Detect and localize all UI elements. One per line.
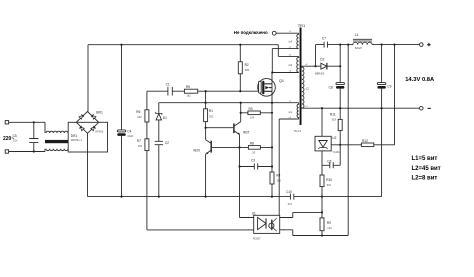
svg-text:DF06S: DF06S	[95, 129, 103, 133]
svg-text:C4: C4	[127, 130, 131, 134]
svg-text:C10: C10	[286, 190, 292, 194]
svg-text:Q1: Q1	[279, 79, 284, 83]
svg-text:DR1: DR1	[71, 134, 78, 138]
svg-text:R11: R11	[330, 113, 336, 117]
svg-text:U2: U2	[332, 136, 336, 140]
svg-text:L4: L4	[289, 40, 293, 44]
svg-text:TL431: TL431	[332, 150, 340, 154]
svg-text:R7: R7	[137, 139, 141, 143]
svg-text:R6: R6	[136, 110, 140, 114]
svg-text:C9: C9	[387, 84, 391, 88]
svg-text:L1: L1	[289, 110, 293, 114]
svg-text:50: 50	[252, 150, 255, 154]
svg-text:W2T: W2T	[243, 131, 250, 135]
svg-text:R10: R10	[326, 178, 332, 182]
svg-text:104: 104	[250, 116, 255, 120]
svg-text:15n: 15n	[13, 139, 18, 143]
svg-text:TR1: TR1	[298, 23, 306, 28]
svg-text:L3: L3	[289, 63, 293, 67]
svg-text:R4: R4	[276, 173, 280, 177]
svg-text:W2X: W2X	[193, 148, 201, 152]
svg-text:R1: R1	[209, 109, 213, 113]
svg-text:C3: C3	[251, 159, 255, 163]
svg-text:C8: C8	[329, 85, 333, 89]
svg-text:к2: к2	[289, 46, 292, 48]
svg-text:L1: L1	[355, 33, 359, 37]
svg-text:R8: R8	[250, 141, 254, 145]
svg-text:C6: C6	[327, 159, 331, 163]
svg-text:L2: L2	[306, 86, 310, 90]
svg-text:C7: C7	[322, 37, 326, 41]
svg-text:1k2: 1k2	[187, 93, 192, 97]
svg-text:472: 472	[288, 202, 293, 206]
svg-text:1k5: 1k5	[277, 178, 282, 182]
svg-text:L1=5 вит: L1=5 вит	[412, 156, 438, 162]
svg-text:C2: C2	[165, 141, 169, 145]
svg-text:124: 124	[327, 226, 332, 230]
svg-text:606: 606	[245, 68, 250, 72]
svg-text:R5: R5	[186, 85, 190, 89]
svg-text:к2: к2	[305, 64, 308, 66]
svg-text:U1: U1	[252, 211, 256, 215]
svg-text:Не подключено: Не подключено	[234, 30, 268, 35]
svg-text:152: 152	[137, 115, 142, 119]
svg-text:DROS1-1: DROS1-1	[71, 138, 83, 142]
svg-text:152: 152	[138, 144, 143, 148]
svg-text:R3: R3	[249, 107, 253, 111]
svg-text:820uH: 820uH	[355, 47, 362, 50]
svg-text:TR-2-5: TR-2-5	[294, 130, 302, 133]
svg-text:L2=45 вит: L2=45 вит	[412, 166, 441, 172]
svg-text:301: 301	[209, 114, 214, 118]
svg-text:с2: с2	[305, 106, 308, 108]
svg-text:R2: R2	[245, 63, 249, 67]
svg-text:501: 501	[327, 183, 332, 187]
svg-text:C5: C5	[13, 134, 17, 138]
svg-text:MBR360: MBR360	[315, 72, 325, 75]
svg-text:PC817: PC817	[253, 237, 261, 241]
svg-text:L2=8 вит: L2=8 вит	[412, 176, 438, 182]
svg-text:R9: R9	[327, 221, 331, 225]
svg-text:BR1: BR1	[96, 110, 103, 114]
svg-text:R12: R12	[362, 139, 368, 143]
svg-text:14.3V 0.8A: 14.3V 0.8A	[405, 77, 435, 83]
svg-text:C1: C1	[166, 83, 170, 87]
svg-text:D2: D2	[320, 57, 324, 61]
svg-text:318: 318	[332, 117, 337, 121]
svg-text:D1: D1	[163, 116, 167, 120]
svg-text:с2: с2	[289, 31, 292, 33]
svg-text:10uF: 10uF	[127, 134, 133, 138]
